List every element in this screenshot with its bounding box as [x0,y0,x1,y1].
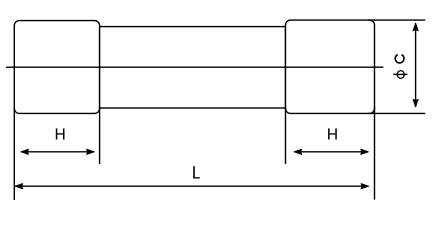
centerline [6,66,383,68]
left H label (drawn glyph) [56,128,65,139]
left H right extension line [99,107,101,165]
left H dimension line [21,151,94,153]
right H label (drawn glyph) [328,128,337,139]
left end cap [14,21,99,114]
phi C top extension line [368,19,425,21]
left H left extension line (cap left edge extended) [13,107,15,201]
L arrow right [361,184,369,189]
L label (drawn glyph) [193,166,200,178]
right H right extension line (cap right edge extended) [374,107,376,200]
phi C dimension line [415,23,417,107]
phi C label: phi glyph (circle with bar) [397,71,404,79]
right H dimension line [294,151,368,153]
L arrow left [15,184,23,189]
left H arrow right [87,149,95,154]
phi C bottom extension line [368,112,425,114]
right H left extension line [285,107,287,165]
fuse body [100,27,286,108]
phi C arrow up [413,23,418,31]
phi C label: C glyph (arc, opening up) [395,55,404,63]
L dimension line [15,185,368,187]
right H arrow right [361,149,369,154]
phi C arrow down [413,99,418,107]
right H arrow left [294,149,302,154]
left H arrow left [21,149,29,154]
right end cap [286,20,375,113]
